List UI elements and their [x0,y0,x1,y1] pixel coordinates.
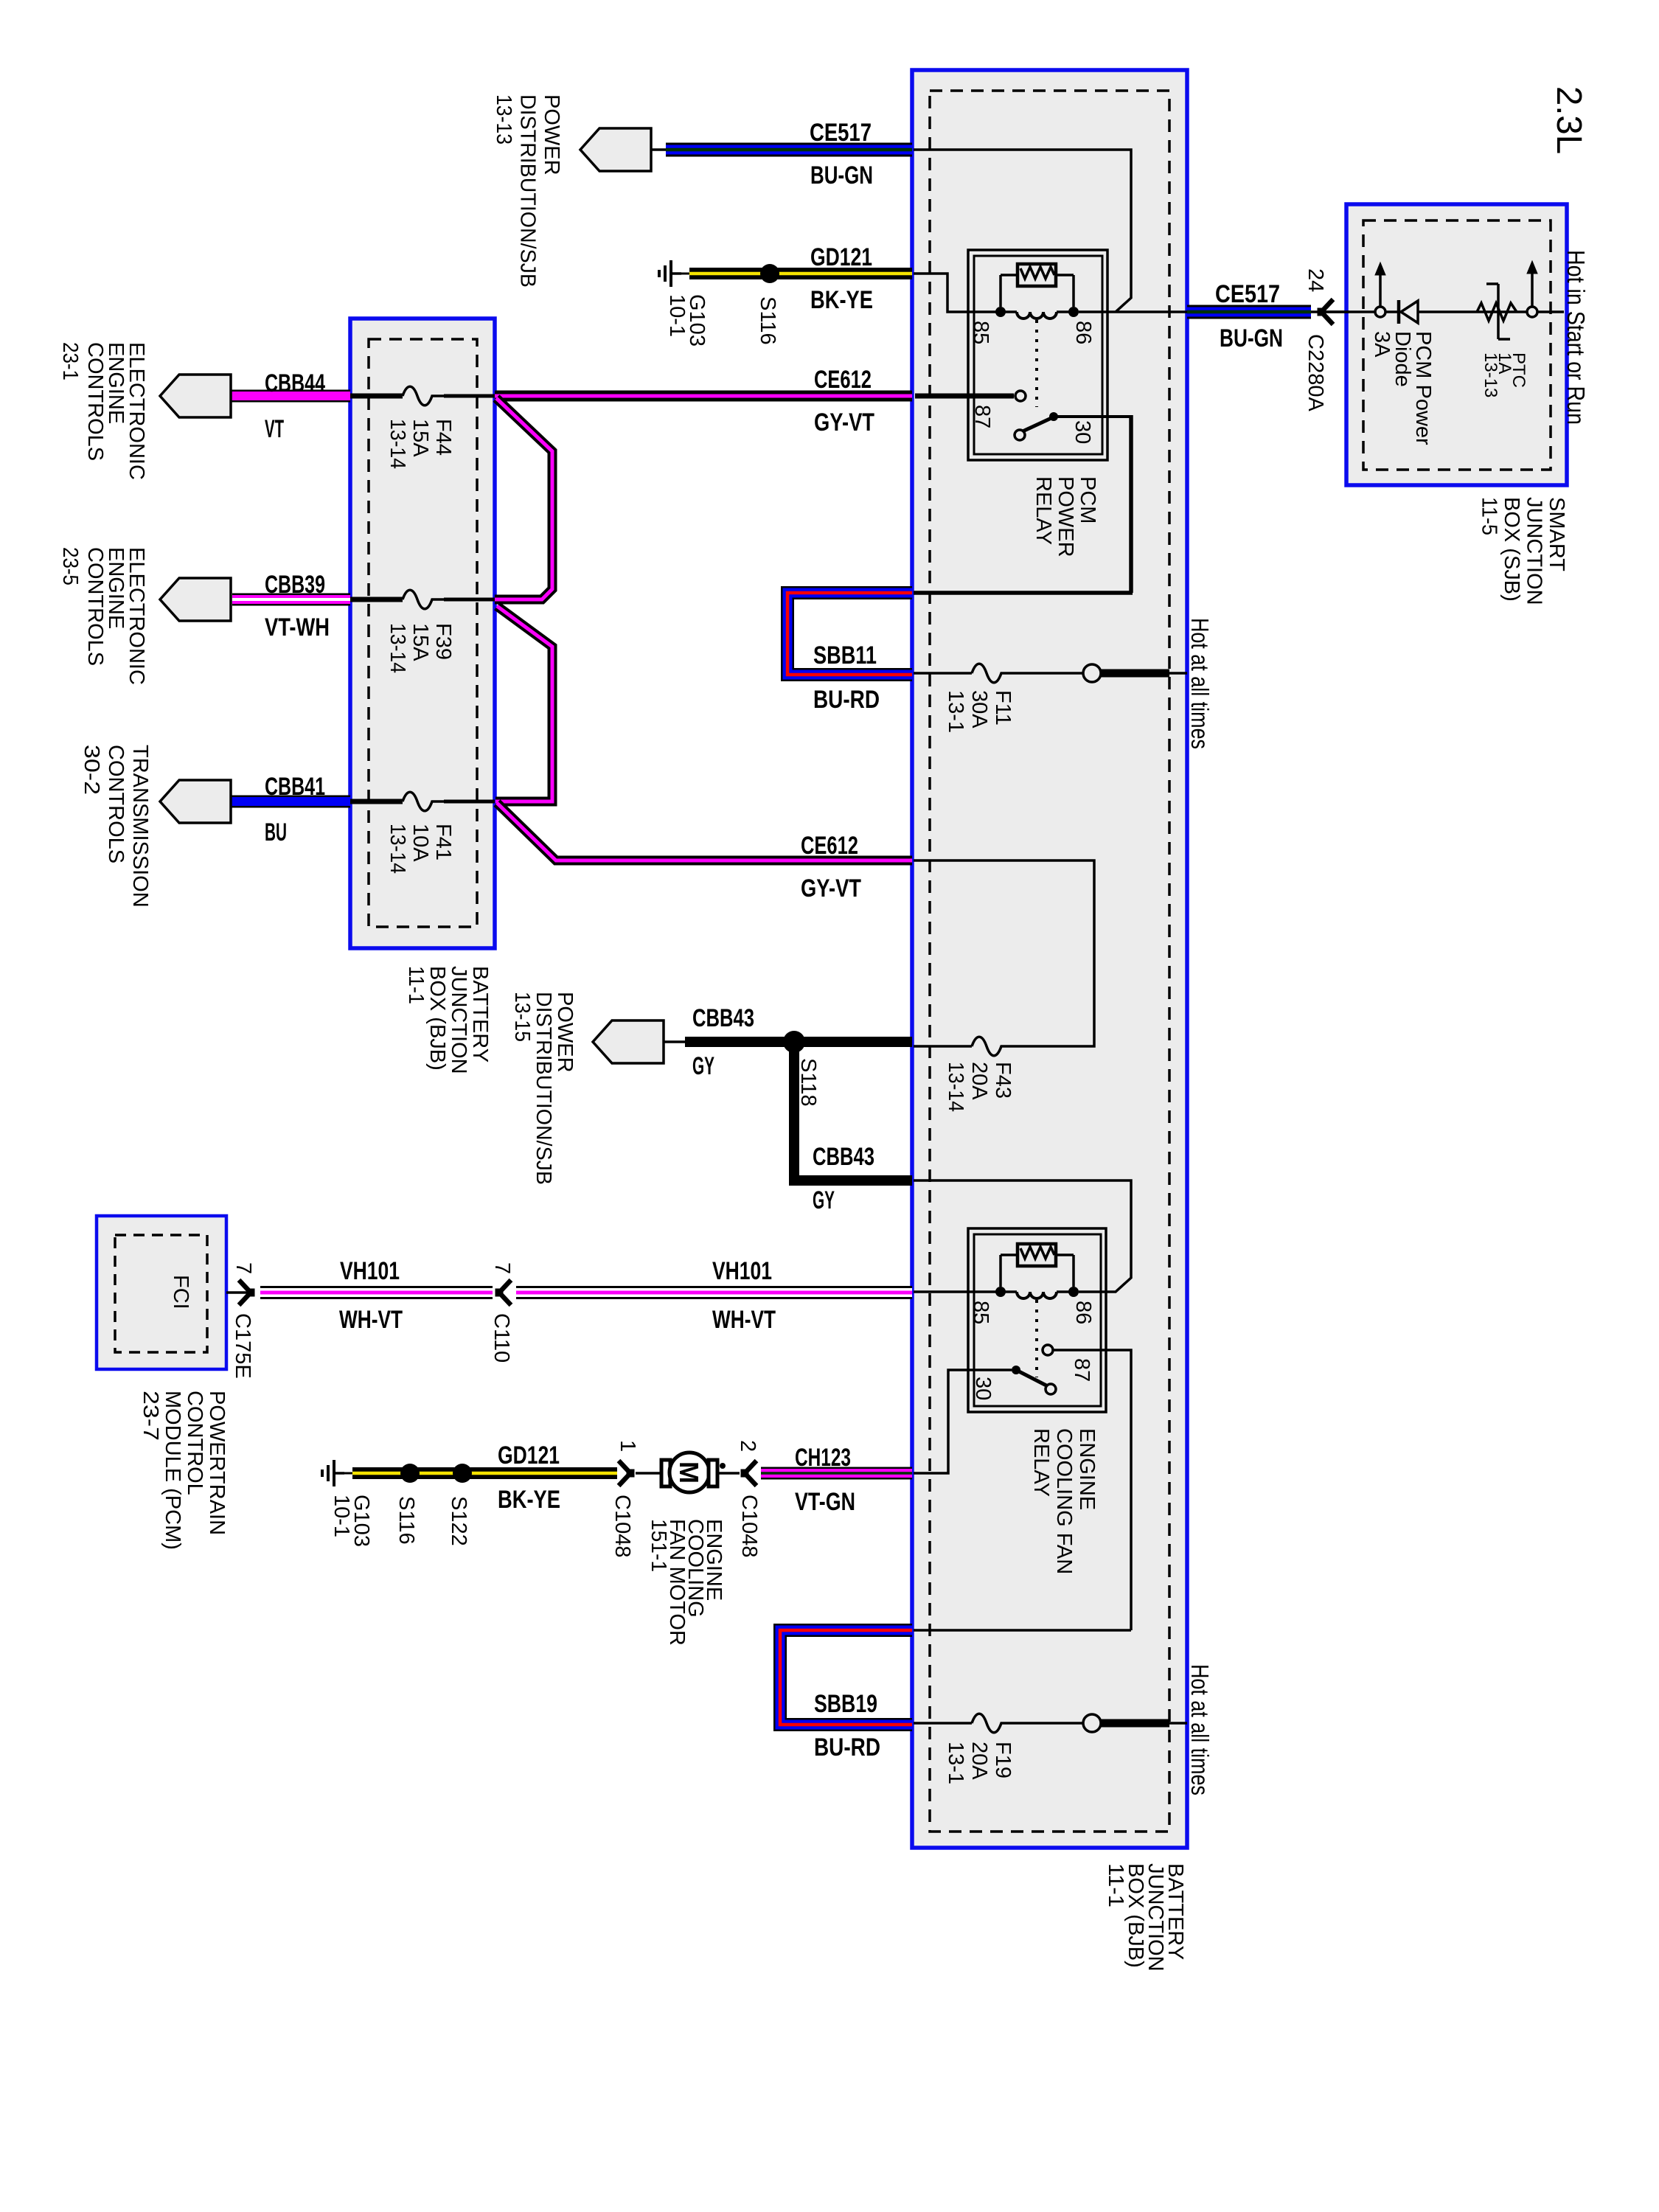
svg-text:10-1: 10-1 [665,294,689,337]
svg-text:SMART: SMART [1545,497,1568,571]
svg-text:S116: S116 [756,296,779,345]
svg-text:CBB39: CBB39 [265,571,325,599]
svg-text:BU-GN: BU-GN [810,161,873,189]
svg-text:TRANSMISSION: TRANSMISSION [128,745,152,908]
svg-text:Hot at all times: Hot at all times [1186,1664,1214,1795]
svg-text:13-14: 13-14 [386,824,409,874]
svg-text:7: 7 [232,1262,255,1274]
svg-text:11-5: 11-5 [1478,497,1501,535]
svg-text:13-14: 13-14 [944,1062,967,1112]
svg-text:VT-GN: VT-GN [795,1488,855,1516]
svg-text:VH101: VH101 [712,1257,772,1285]
svg-text:M: M [674,1461,704,1484]
svg-text:13-1: 13-1 [944,1742,967,1784]
svg-text:30-2: 30-2 [80,745,103,795]
svg-text:F11: F11 [991,690,1015,726]
svg-text:S122: S122 [447,1496,470,1546]
svg-text:POWERTRAIN: POWERTRAIN [205,1391,229,1535]
svg-text:CBB43: CBB43 [813,1143,874,1171]
svg-text:PCM: PCM [1076,476,1099,524]
svg-text:87: 87 [1070,1358,1093,1382]
svg-text:S118: S118 [796,1058,820,1107]
svg-text:CONTROLS: CONTROLS [83,547,107,666]
svg-text:30A: 30A [967,690,991,728]
svg-text:CBB43: CBB43 [692,1004,754,1032]
svg-text:BU-GN: BU-GN [1220,324,1283,352]
svg-text:MODULE (PCM): MODULE (PCM) [161,1391,184,1550]
svg-text:RELAY: RELAY [1029,1428,1053,1497]
svg-text:C110: C110 [490,1313,513,1363]
svg-text:BU: BU [265,818,287,846]
svg-text:85: 85 [969,1301,992,1324]
svg-text:ENGINE: ENGINE [1075,1428,1099,1510]
svg-text:GY: GY [813,1186,835,1214]
svg-text:WH-VT: WH-VT [712,1306,776,1334]
svg-text:7: 7 [490,1262,514,1274]
svg-text:11-1: 11-1 [404,966,428,1004]
svg-text:30: 30 [1071,420,1094,444]
svg-text:C1048: C1048 [611,1495,634,1557]
svg-text:POWER: POWER [553,992,577,1073]
svg-text:CE612: CE612 [801,832,858,860]
svg-text:2.3L: 2.3L [1549,86,1588,154]
svg-text:BK-YE: BK-YE [498,1486,560,1514]
svg-text:86: 86 [1071,1301,1095,1324]
svg-text:2: 2 [736,1440,759,1452]
svg-text:85: 85 [969,321,992,344]
svg-text:13-1: 13-1 [944,690,967,733]
svg-text:C1048: C1048 [737,1495,761,1557]
svg-text:C2280A: C2280A [1304,334,1327,411]
svg-text:23-1: 23-1 [58,342,82,380]
svg-text:GY-VT: GY-VT [801,874,861,902]
svg-text:WH-VT: WH-VT [339,1306,403,1334]
svg-text:C175E: C175E [231,1313,254,1379]
svg-text:30: 30 [971,1377,995,1400]
svg-text:10-1: 10-1 [330,1495,353,1537]
svg-text:F39: F39 [431,623,455,660]
svg-text:3A: 3A [1370,331,1394,358]
svg-text:VH101: VH101 [340,1257,400,1285]
svg-text:CE612: CE612 [814,366,872,394]
svg-text:F41: F41 [431,824,455,860]
svg-text:23-5: 23-5 [58,547,82,585]
svg-text:Hot in Start or Run: Hot in Start or Run [1562,250,1590,425]
svg-text:CE517: CE517 [810,119,872,147]
svg-text:F43: F43 [991,1062,1015,1099]
svg-text:CBB41: CBB41 [265,773,325,801]
svg-text:BU-RD: BU-RD [814,1733,880,1761]
svg-text:11-1: 11-1 [1104,1863,1127,1907]
svg-text:CH123: CH123 [795,1444,851,1472]
svg-text:FCI: FCI [169,1275,192,1310]
svg-text:GD121: GD121 [810,243,872,271]
svg-text:24: 24 [1304,268,1327,292]
svg-text:POWER: POWER [540,94,563,175]
svg-text:COOLING FAN: COOLING FAN [1052,1428,1076,1574]
svg-text:BOX (SJB): BOX (SJB) [1500,497,1523,602]
svg-text:F44: F44 [431,419,455,456]
svg-text:VT-WH: VT-WH [265,613,330,641]
svg-text:BATTERY: BATTERY [468,966,492,1062]
svg-text:BU-RD: BU-RD [813,686,880,714]
svg-text:JUNCTION: JUNCTION [447,966,470,1074]
svg-text:CONTROL: CONTROL [183,1391,206,1495]
svg-text:SBB11: SBB11 [813,641,877,669]
svg-text:13-14: 13-14 [386,623,409,673]
svg-text:S116: S116 [394,1496,418,1545]
svg-text:13-14: 13-14 [386,419,409,469]
svg-text:15A: 15A [408,623,432,661]
svg-text:151-1: 151-1 [647,1519,670,1572]
svg-text:87: 87 [970,405,994,428]
svg-text:CONTROLS: CONTROLS [104,745,128,863]
svg-text:RELAY: RELAY [1032,476,1055,545]
svg-text:CBB44: CBB44 [265,369,325,397]
svg-text:15A: 15A [408,419,432,457]
svg-text:10A: 10A [408,824,432,862]
svg-text:F19: F19 [991,1742,1015,1778]
svg-text:GY: GY [692,1052,714,1080]
svg-text:13-15: 13-15 [510,992,534,1042]
svg-text:GD121: GD121 [498,1441,560,1470]
svg-text:13-13: 13-13 [1481,352,1500,397]
svg-text:1: 1 [616,1440,639,1452]
svg-text:20A: 20A [967,1742,991,1780]
svg-text:Hot at all times: Hot at all times [1186,618,1214,749]
svg-text:DISTRIBUTION/SJB: DISTRIBUTION/SJB [532,992,555,1185]
svg-text:BOX (BJB): BOX (BJB) [425,966,449,1071]
svg-text:BK-YE: BK-YE [810,286,873,314]
svg-text:20A: 20A [967,1062,991,1100]
svg-text:POWER: POWER [1054,476,1077,557]
svg-text:CONTROLS: CONTROLS [83,342,107,461]
svg-text:86: 86 [1071,321,1095,344]
svg-text:DISTRIBUTION/SJB: DISTRIBUTION/SJB [516,94,540,288]
svg-text:VT: VT [265,415,284,443]
svg-text:JUNCTION: JUNCTION [1523,497,1546,605]
svg-text:13-13: 13-13 [492,94,515,145]
svg-text:GY-VT: GY-VT [814,408,874,437]
svg-text:CE517: CE517 [1215,280,1280,308]
svg-text:SBB19: SBB19 [814,1690,877,1718]
svg-text:23-7: 23-7 [139,1391,162,1441]
